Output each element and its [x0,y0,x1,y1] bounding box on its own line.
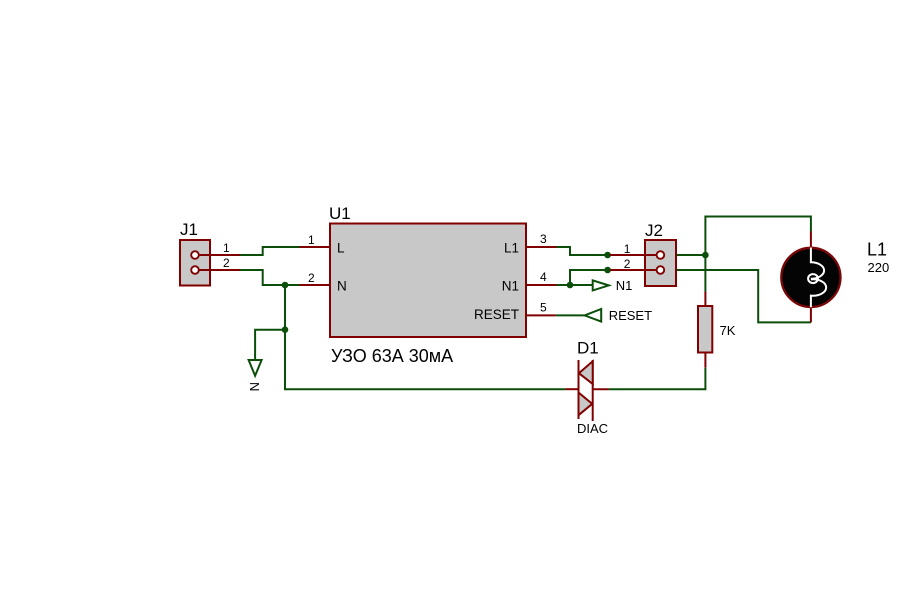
wire J1.1 to U1.L [240,247,300,255]
svg-text:L: L [337,241,345,256]
svg-text:RESET: RESET [609,308,652,323]
svg-text:N1: N1 [616,278,633,293]
svg-text:N: N [247,382,262,391]
terminal N1 [593,280,609,290]
wire lamp top bus [705,217,811,256]
junction at N1 branch [567,282,574,289]
svg-text:7K: 7K [720,323,736,338]
svg-text:U1: U1 [329,204,351,223]
terminal RESET [585,309,602,322]
pin L1 of U1 [526,246,557,248]
svg-text:УЗО 63А 30мА: УЗО 63А 30мА [331,346,453,366]
svg-text:1: 1 [624,242,631,256]
svg-text:DIAC: DIAC [577,421,608,436]
svg-text:5: 5 [540,301,547,315]
junction on J2 pin 2 wire [604,267,611,274]
wire DIAC to resistor bottom [609,368,706,390]
wire N vertical bus [285,285,565,389]
connector J1 [180,240,210,286]
pin 1 of J1 [199,254,241,256]
svg-text:220: 220 [868,260,890,275]
ground terminal (net N) [249,360,262,376]
wire U1.L1 to J2.1 [557,247,611,255]
svg-text:RESET: RESET [474,307,519,322]
wire N1 terminal stub [570,284,593,286]
pin 2 of J2 [610,269,657,271]
svg-text:N1: N1 [502,279,519,294]
resistor 7K [698,292,712,368]
svg-text:2: 2 [223,256,230,270]
pin N1 of U1 [526,284,557,286]
pin N of U1 [300,284,331,286]
junction on J2 pin 1 wire [604,252,611,259]
svg-text:4: 4 [540,270,547,284]
wire J1.2 to U1.N [240,270,300,285]
wire ground branch [255,330,285,360]
svg-text:N: N [337,279,347,294]
junction at N branch [282,282,289,289]
pin 1 of J2 [610,254,657,256]
RCD block U1 [330,224,526,338]
connector J2 [645,240,676,286]
svg-text:L1: L1 [867,240,887,260]
svg-text:1: 1 [223,241,230,255]
junction at lamp feed [702,252,709,259]
wire RESET terminal stub [556,314,585,316]
svg-text:D1: D1 [577,339,599,358]
diac D1 [565,360,608,421]
svg-text:J2: J2 [645,221,663,240]
svg-text:J1: J1 [180,220,198,239]
pin 2 of J1 [199,269,241,271]
wire U1.N1 to J2.2 [557,270,611,285]
svg-text:3: 3 [540,232,547,246]
svg-text:2: 2 [624,257,631,271]
svg-text:2: 2 [308,271,315,285]
wire J2.1 to lamp top [676,255,705,292]
wire J2.2 to lamp bottom [676,270,811,322]
pin L of U1 [300,246,331,248]
svg-text:1: 1 [308,233,315,247]
pin RESET of U1 [526,314,556,316]
junction at ground branch [282,326,289,333]
lamp L1 [781,232,840,323]
svg-text:L1: L1 [504,241,519,256]
